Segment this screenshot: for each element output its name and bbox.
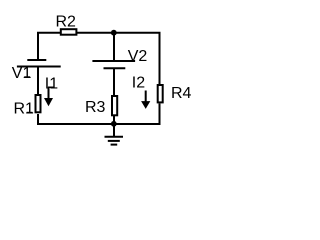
svg-text:R4: R4	[171, 85, 192, 102]
label R1 digit foot	[27, 112, 33, 114]
label I1 digit foot	[48, 87, 55, 89]
node dot bottom middle	[111, 121, 117, 127]
wire middle riser to bottom	[113, 115, 115, 124]
battery V1	[17, 60, 61, 67]
svg-text:V1: V1	[12, 65, 32, 82]
svg-text:R3: R3	[85, 99, 106, 116]
svg-text:I2: I2	[132, 75, 145, 92]
svg-text:R1: R1	[14, 101, 35, 118]
label V1 digit foot	[24, 76, 30, 78]
wire bottom horizontal	[37, 123, 161, 125]
node dot top middle	[111, 30, 117, 36]
resistor R4	[158, 85, 163, 102]
battery V2	[92, 61, 135, 68]
current arrow I2	[141, 91, 150, 109]
svg-text:R2: R2	[56, 14, 77, 31]
wire left riser to bottom	[37, 114, 39, 125]
resistor R2	[61, 29, 77, 35]
wire left riser bottom	[37, 67, 39, 95]
wire left riser top	[37, 32, 39, 60]
wire top horizontal	[37, 32, 161, 34]
resistor R1	[36, 95, 41, 112]
wire middle riser bottom	[113, 69, 115, 96]
wire right riser top	[159, 32, 161, 84]
wire middle riser top	[113, 33, 115, 61]
current arrow I1	[44, 88, 53, 107]
wire right riser bottom	[159, 104, 161, 126]
ground	[105, 124, 124, 145]
svg-text:V2: V2	[128, 48, 148, 65]
resistor R3	[112, 96, 117, 115]
svg-text:I1: I1	[45, 75, 58, 92]
